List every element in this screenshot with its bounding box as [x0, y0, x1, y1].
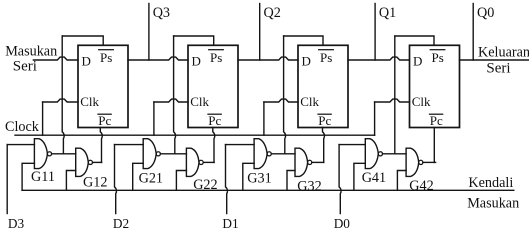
wire U4 Q output to Keluaran Seri (node Q0) — [460, 59, 529, 61]
svg-text:D: D — [192, 54, 201, 69]
wire preclear: U4 pin Pc down to G42 output — [433, 128, 435, 163]
wire preclear: U2 pin Pc down to G22 output — [213, 128, 215, 163]
wire preset: G21 output riser over U2 to pin Ps — [174, 36, 214, 154]
nand gate G41 — [365, 139, 382, 169]
svg-text:Ps: Ps — [100, 50, 112, 65]
wire Clk pin stub U2 (hops preset riser) — [154, 99, 188, 102]
U4 pin label Pc (preclear, active low) — [430, 113, 444, 128]
wire Kendali to G22 lower input — [176, 171, 186, 191]
svg-text:Masukan: Masukan — [5, 44, 57, 60]
svg-text:Clk: Clk — [80, 94, 99, 109]
wire preclear: U1 pin Pc down to G12 output — [100, 128, 102, 163]
svg-text:Keluaran: Keluaran — [478, 44, 529, 60]
wire Kendali to G32 lower input — [287, 171, 295, 191]
svg-text:Clk: Clk — [412, 94, 431, 109]
svg-text:Masukan: Masukan — [467, 196, 519, 212]
wire G32 output to preclear riser — [312, 161, 324, 163]
svg-text:Clock: Clock — [5, 119, 40, 135]
wire Kendali Masukan bus — [22, 189, 514, 191]
svg-text:D0: D0 — [334, 216, 351, 231]
node Q1 — [375, 4, 396, 61]
nand gate G42 — [406, 148, 423, 176]
wire G31 output to G32 input — [271, 153, 295, 155]
svg-text:Ps: Ps — [320, 50, 332, 65]
nand gate G12 — [76, 148, 93, 176]
net label Keluaran Seri (serial output) — [478, 44, 529, 76]
nand gate G11 — [34, 139, 51, 169]
svg-text:Pc: Pc — [208, 113, 221, 128]
svg-text:G42: G42 — [409, 178, 433, 194]
svg-text:D1: D1 — [222, 216, 238, 231]
svg-text:Clk: Clk — [190, 94, 209, 109]
svg-text:G21: G21 — [139, 170, 163, 186]
wire G21 output to G22 input — [160, 153, 186, 155]
wire Clock bus — [15, 134, 375, 136]
nand gate G31 — [254, 139, 271, 169]
svg-text:G11: G11 — [31, 169, 55, 185]
wire Clock riser to U1 Clk — [42, 102, 44, 135]
svg-text:Seri: Seri — [13, 59, 37, 75]
nand gate G22 — [186, 148, 203, 176]
wire U2 Q output to U3 pin D (node Q2) — [238, 57, 298, 60]
wire Clk pin stub U4 (hops preset riser) — [375, 99, 410, 102]
svg-text:Q0: Q0 — [477, 5, 494, 21]
svg-text:G41: G41 — [362, 170, 386, 186]
wire U3 Q output to U4 pin D (node Q1) — [348, 57, 410, 60]
wire preset: G31 output riser over U3 to pin Ps — [284, 36, 323, 154]
flip-flop U3 (D flip-flop, box) — [298, 45, 348, 127]
node D2 input riser to G21 upper input — [115, 145, 144, 214]
svg-text:D: D — [82, 54, 91, 69]
svg-text:Pc: Pc — [430, 113, 443, 128]
U2 pin label Ps (preset, active low) — [209, 50, 224, 65]
wire Kendali to G12 lower input — [66, 171, 75, 191]
node D3 input riser to G11 upper input — [7, 145, 34, 214]
U1 pin label Pc (preclear, active low) — [98, 113, 112, 128]
net label Masukan Seri (serial input) — [5, 44, 57, 75]
wire G22 output to preclear riser — [203, 161, 214, 163]
node Q0 — [473, 4, 494, 61]
wire Clock riser to U3 Clk — [263, 102, 265, 135]
node Q3 — [149, 4, 170, 61]
flip-flop U4 (D flip-flop, box) — [410, 45, 460, 127]
U1 pin label Ps (preset, active low) — [99, 50, 114, 65]
wire Clock riser to U2 Clk — [153, 102, 155, 135]
svg-text:Pc: Pc — [318, 113, 331, 128]
wire preset: G41 output riser over U4 to pin Ps — [395, 36, 434, 154]
wire Kendali to G41 lower input — [354, 163, 365, 190]
wire U1 Q output to U2 pin D (node Q3) — [128, 57, 188, 60]
wire Kendali to G42 lower input — [397, 171, 406, 191]
net label Kendali Masukan (load control) — [467, 175, 519, 211]
wire G42 output to preclear riser — [423, 161, 436, 163]
wire G12 output to preclear riser — [93, 161, 102, 163]
flip-flop U2 (D flip-flop, box) — [188, 45, 238, 127]
U3 pin label Ps (preset, active low) — [319, 50, 334, 65]
nand gate G32 — [295, 148, 312, 176]
svg-text:Kendali: Kendali — [468, 175, 513, 191]
node D0 input riser to G41 upper input — [339, 145, 365, 214]
node Q2 — [260, 4, 281, 61]
wire Kendali to G31 lower input — [243, 163, 254, 190]
svg-text:Ps: Ps — [432, 50, 444, 65]
svg-text:Q3: Q3 — [153, 5, 170, 21]
wire Masukan Seri to U1 pin D — [33, 57, 78, 60]
wire Clk pin stub U1 (hops preset riser) — [43, 99, 78, 102]
U3 pin label Pc (preclear, active low) — [318, 113, 332, 128]
svg-text:Pc: Pc — [98, 113, 111, 128]
wire preset: G11 output riser over U1 to pin Ps — [62, 36, 103, 154]
nand gate G21 — [143, 139, 160, 169]
wire Kendali to G21 lower input — [133, 163, 144, 190]
wire preclear: U3 pin Pc down to G32 output — [323, 128, 325, 163]
svg-text:G12: G12 — [83, 174, 107, 190]
svg-text:D3: D3 — [8, 216, 25, 231]
wire G11 output to G12 input — [52, 153, 76, 155]
svg-text:G31: G31 — [247, 170, 271, 186]
U2 pin label Pc (preclear, active low) — [208, 113, 222, 128]
svg-text:Q2: Q2 — [264, 5, 281, 21]
svg-text:D: D — [413, 54, 422, 69]
svg-text:G32: G32 — [297, 179, 321, 195]
wire Kendali to G11 lower input — [22, 163, 34, 190]
svg-text:D2: D2 — [113, 216, 129, 231]
flip-flop U1 (D flip-flop, box) — [78, 45, 128, 127]
svg-text:D: D — [302, 54, 311, 69]
node D1 input riser to G31 upper input — [226, 145, 255, 214]
svg-text:Seri: Seri — [486, 61, 510, 77]
svg-text:Clk: Clk — [300, 94, 319, 109]
U4 pin label Ps (preset, active low) — [430, 50, 445, 65]
wire G41 output to G42 input — [383, 153, 407, 155]
wire Clock riser to U4 Clk — [374, 102, 376, 135]
svg-text:Q1: Q1 — [379, 5, 396, 21]
svg-text:Ps: Ps — [210, 50, 222, 65]
wire Clk pin stub U3 (hops preset riser) — [264, 99, 298, 102]
